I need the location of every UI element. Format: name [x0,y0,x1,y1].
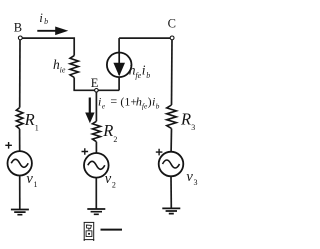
svg-text:3: 3 [194,178,198,187]
node B [18,36,22,40]
svg-text:R: R [102,121,113,140]
svg-text:2: 2 [112,180,116,189]
svg-text:R: R [180,109,191,128]
svg-text:ie: ie [60,65,66,74]
svg-text:B: B [14,21,22,35]
source v3 [159,152,184,177]
svg-text:fe: fe [135,71,141,80]
wire C to R3 [171,40,174,105]
svg-text:R: R [24,110,35,129]
wire E rail [73,89,119,91]
wire B to corner top [22,38,74,56]
caption 一 (drawn) [101,229,123,231]
svg-text:3: 3 [191,123,195,132]
svg-text:b: b [146,71,150,80]
label + of v2 [82,148,89,155]
svg-text:i: i [39,10,43,25]
svg-text:E: E [91,76,99,90]
svg-text:v: v [26,171,33,187]
svg-text:b: b [44,17,48,26]
svg-text:v: v [186,169,193,185]
wire current source top lead [118,38,120,52]
wire top rail to C [119,37,172,39]
wire left column B to R1 [19,40,21,108]
resistor R3 [167,105,177,129]
current source h_fe i_b [107,53,132,78]
wire v2 to ground [95,178,97,209]
svg-text:v: v [105,171,112,187]
ground v3 [162,208,180,213]
wire v1 to ground [19,176,21,210]
svg-text:1: 1 [34,180,38,189]
ground v1 [11,210,29,215]
wire current source bottom lead [118,77,120,90]
wire v3 to ground [170,176,172,208]
resistor R1 [16,108,23,129]
svg-text:1: 1 [35,123,39,132]
ground v2 [87,209,105,214]
svg-text:2: 2 [113,135,117,144]
label i_e = (1+h_fe) i_b [98,94,160,110]
svg-text:): ) [148,94,152,108]
current arrow i_e [89,98,91,115]
wire R3 to v3 [170,129,172,152]
source v1 [8,151,32,175]
source v2 [84,153,109,178]
svg-text:C: C [168,16,176,30]
svg-text:=: = [110,94,117,108]
wire h_ie bottom to E rail [73,78,75,91]
wire R2 to v2 [95,142,97,153]
node C [170,36,174,40]
label + of v1 [5,142,12,149]
svg-text:i: i [142,62,146,77]
resistor h_ie [70,56,78,78]
resistor R2 [92,121,100,141]
node E [95,89,99,93]
svg-text:b: b [156,101,160,110]
wire R1 to v1 [19,129,21,151]
wire E down to R2 [95,92,97,121]
label + of v3 [156,149,163,156]
current arrow i_b [37,30,57,32]
caption 圖 (drawn) [84,222,95,241]
svg-text:(1+: (1+ [120,94,137,108]
